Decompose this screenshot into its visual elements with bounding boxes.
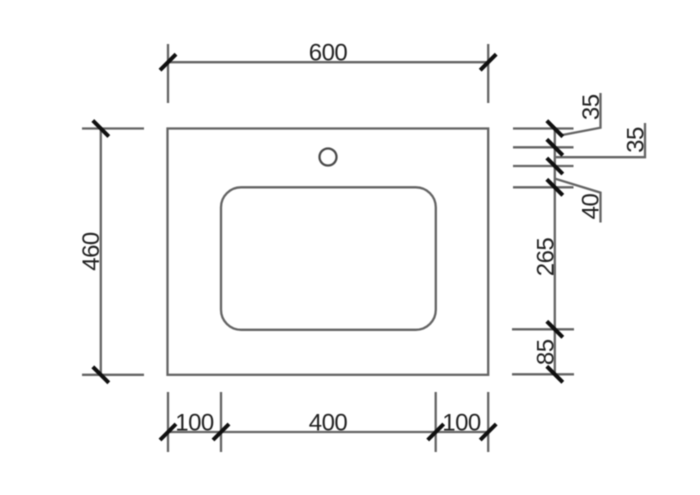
- extension line top-left of 600: [167, 44, 169, 103]
- svg-text:100: 100: [442, 410, 481, 437]
- right extension line at hole bottom: [513, 165, 574, 167]
- extension line bottom 3: [435, 392, 437, 452]
- tick 460 top: [93, 121, 109, 137]
- dimension line 460: [100, 129, 102, 375]
- leader line for 35 second: [556, 123, 645, 157]
- extension line top-right of 600: [487, 44, 489, 103]
- tick 600 right: [480, 54, 496, 70]
- tick right stack at basin top: [547, 179, 563, 195]
- dimension line 100/400/100: [168, 431, 488, 433]
- svg-text:40: 40: [578, 194, 605, 220]
- tick right stack at hole top: [547, 139, 563, 155]
- svg-text:35: 35: [578, 94, 605, 120]
- leader line for 40: [556, 179, 601, 223]
- extension line left-bottom of 460: [82, 374, 144, 376]
- svg-text:100: 100: [175, 410, 214, 437]
- svg-text:600: 600: [309, 40, 348, 67]
- leader line for 35 top: [561, 93, 601, 135]
- tick right stack at basin bottom: [547, 321, 563, 337]
- right extension line at counter bottom: [512, 373, 574, 375]
- svg-text:400: 400: [309, 410, 348, 437]
- extension line left-top of 460: [82, 127, 144, 129]
- extension line bottom 4: [487, 392, 489, 452]
- tick bottom dim 4: [480, 424, 496, 440]
- tick 600 left: [160, 54, 176, 70]
- counter top outline: [168, 129, 489, 375]
- tick right stack at hole bottom: [547, 158, 563, 174]
- extension line bottom 2: [220, 392, 222, 452]
- svg-text:35: 35: [623, 127, 650, 153]
- basin cutout: [221, 187, 436, 329]
- tick bottom dim 2: [213, 424, 229, 440]
- svg-text:85: 85: [533, 339, 560, 365]
- tick 460 bottom: [93, 367, 109, 383]
- right extension line at basin top: [513, 186, 574, 188]
- right extension line at hole top: [513, 146, 574, 148]
- right extension line at counter top: [513, 127, 574, 129]
- tick right stack at counter top: [547, 121, 563, 137]
- extension line bottom 1: [167, 392, 169, 452]
- right extension line at basin bottom: [512, 328, 574, 330]
- tick bottom dim 3: [428, 424, 444, 440]
- tick bottom dim 1: [160, 424, 176, 440]
- right vertical dimension line: [554, 129, 556, 375]
- faucet hole: [320, 149, 337, 166]
- svg-text:460: 460: [78, 232, 105, 271]
- dimension line 600: [168, 61, 488, 63]
- tick right stack at counter bottom: [547, 366, 563, 382]
- svg-text:265: 265: [533, 238, 560, 277]
